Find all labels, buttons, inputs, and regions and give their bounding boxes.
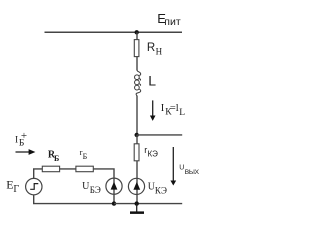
svg-text:+: + xyxy=(21,130,27,142)
arrow UVYX output xyxy=(170,147,176,186)
label UKE xyxy=(148,181,167,195)
label rB xyxy=(80,147,88,161)
svg-text:Н: Н xyxy=(156,46,163,56)
svg-text:КЭ: КЭ xyxy=(148,150,159,159)
wire middle output stub xyxy=(137,134,183,136)
label IK = IL xyxy=(161,103,185,118)
wire RB to rB xyxy=(60,168,76,170)
wire rB to UBE corner xyxy=(93,169,114,178)
label RH xyxy=(147,42,163,57)
wire rKE to UKE source xyxy=(136,161,138,179)
arrow IB xyxy=(16,149,36,155)
label RB xyxy=(48,150,59,163)
svg-text:Г: Г xyxy=(13,184,19,195)
svg-text:L: L xyxy=(148,72,156,88)
svg-text:КЭ: КЭ xyxy=(155,186,167,196)
svg-text:I: I xyxy=(161,103,165,114)
wire through UKE xyxy=(136,178,138,203)
inductor L coil xyxy=(135,70,141,96)
node collector junction dot xyxy=(135,133,139,137)
step symbol inside EГ xyxy=(30,184,38,190)
label rKE xyxy=(144,145,158,159)
resistor RH xyxy=(134,40,139,57)
ground xyxy=(130,204,144,214)
resistor rKE xyxy=(134,144,139,161)
wire RH to coil xyxy=(136,57,138,71)
svg-text:I: I xyxy=(15,136,18,146)
node Eпит label xyxy=(157,11,181,28)
svg-text:U: U xyxy=(179,164,184,171)
svg-text:Б: Б xyxy=(54,154,59,163)
wire coil to middle node xyxy=(136,96,138,135)
arrow triangle in UBE xyxy=(111,182,118,190)
wire rail to RH xyxy=(136,32,138,40)
wire EГ bottom corner xyxy=(34,195,114,204)
arrow IK current xyxy=(150,100,156,121)
node junction dot on rail xyxy=(135,30,139,34)
label IB with plus xyxy=(15,130,27,149)
wire base loop top xyxy=(34,169,43,179)
wire node to rKE resistor xyxy=(136,135,138,144)
resistor RB xyxy=(42,166,59,172)
wire top power rail xyxy=(45,31,183,33)
arrow triangle in UKE xyxy=(133,182,140,190)
svg-text:R: R xyxy=(147,42,155,54)
svg-text:пит: пит xyxy=(164,16,181,28)
source UBE circle xyxy=(106,178,122,194)
node dot below UBE xyxy=(112,201,116,205)
label EГ xyxy=(6,177,19,195)
label UBE xyxy=(82,181,101,195)
wire through UBE xyxy=(113,178,115,203)
source UKE circle xyxy=(128,178,144,194)
node dot at ground xyxy=(135,201,139,205)
svg-text:БЭ: БЭ xyxy=(90,185,101,195)
svg-text:L: L xyxy=(179,108,185,118)
source EГ circle xyxy=(26,178,42,194)
label UVYX xyxy=(179,164,199,176)
resistor rB xyxy=(76,166,93,172)
svg-text:Б: Б xyxy=(83,152,88,161)
wire bottom rail xyxy=(114,203,182,205)
svg-text:ВЫХ: ВЫХ xyxy=(185,169,200,176)
